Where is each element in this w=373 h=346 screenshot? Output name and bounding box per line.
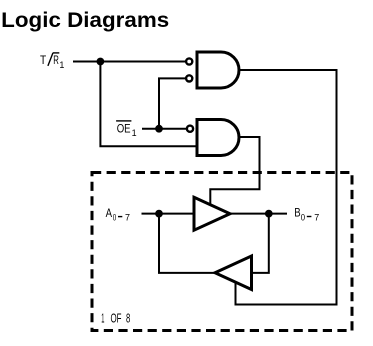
svg-text:7: 7 [125, 212, 130, 222]
svg-text:7: 7 [314, 212, 319, 222]
buffer U4 (B to A, points left) [215, 256, 252, 290]
svg-text:Logic Diagrams: Logic Diagrams [1, 9, 169, 32]
bubble U2 input 1 [187, 126, 193, 132]
svg-text:B: B [294, 206, 300, 220]
overline on R [53, 52, 59, 54]
wire OE1 input to gate U2 bubble [142, 128, 187, 130]
gate U2: AND shape, one inverted input [197, 120, 239, 156]
wire gate U1 output to bottom buffer enable [236, 70, 337, 305]
svg-text:8: 8 [126, 312, 130, 326]
svg-text:A: A [106, 206, 112, 220]
gate U1: AND shape, two inverted inputs [197, 52, 239, 88]
wire T/R1 input to gate U1 top bubble [73, 61, 186, 63]
wire A0-7 to top buffer input [142, 213, 196, 215]
svg-text:T: T [40, 53, 47, 67]
dashed box (1 of 8 cell) [92, 173, 352, 331]
bubble U1 input 2 [186, 75, 192, 81]
svg-text:OF: OF [111, 312, 122, 326]
svg-text:1: 1 [132, 128, 137, 138]
wire from node OE up to gate U1 lower bubble [159, 78, 186, 128]
node T junction dot [97, 58, 105, 66]
svg-text:1: 1 [59, 60, 64, 70]
svg-text:OE: OE [117, 121, 131, 135]
wire node B down to bottom buffer input [251, 214, 269, 273]
wire gate U2 output to top buffer enable [210, 137, 259, 206]
wire node A down to bottom buffer output [159, 214, 216, 273]
node A junction dot [155, 210, 163, 218]
node OE junction dot [155, 125, 163, 133]
svg-text:R: R [53, 53, 59, 67]
svg-text:0: 0 [301, 212, 305, 222]
buffer U3 (A to B, points right) [194, 197, 230, 230]
svg-text:0: 0 [113, 212, 117, 222]
svg-text:1: 1 [101, 312, 104, 326]
overline on OE [116, 120, 131, 122]
bubble U1 input 1 [186, 58, 192, 64]
wire top buffer output to B0-7 [228, 213, 287, 215]
node B junction dot [265, 210, 273, 218]
wire from node T down to gate U2 lower input [100, 62, 197, 147]
